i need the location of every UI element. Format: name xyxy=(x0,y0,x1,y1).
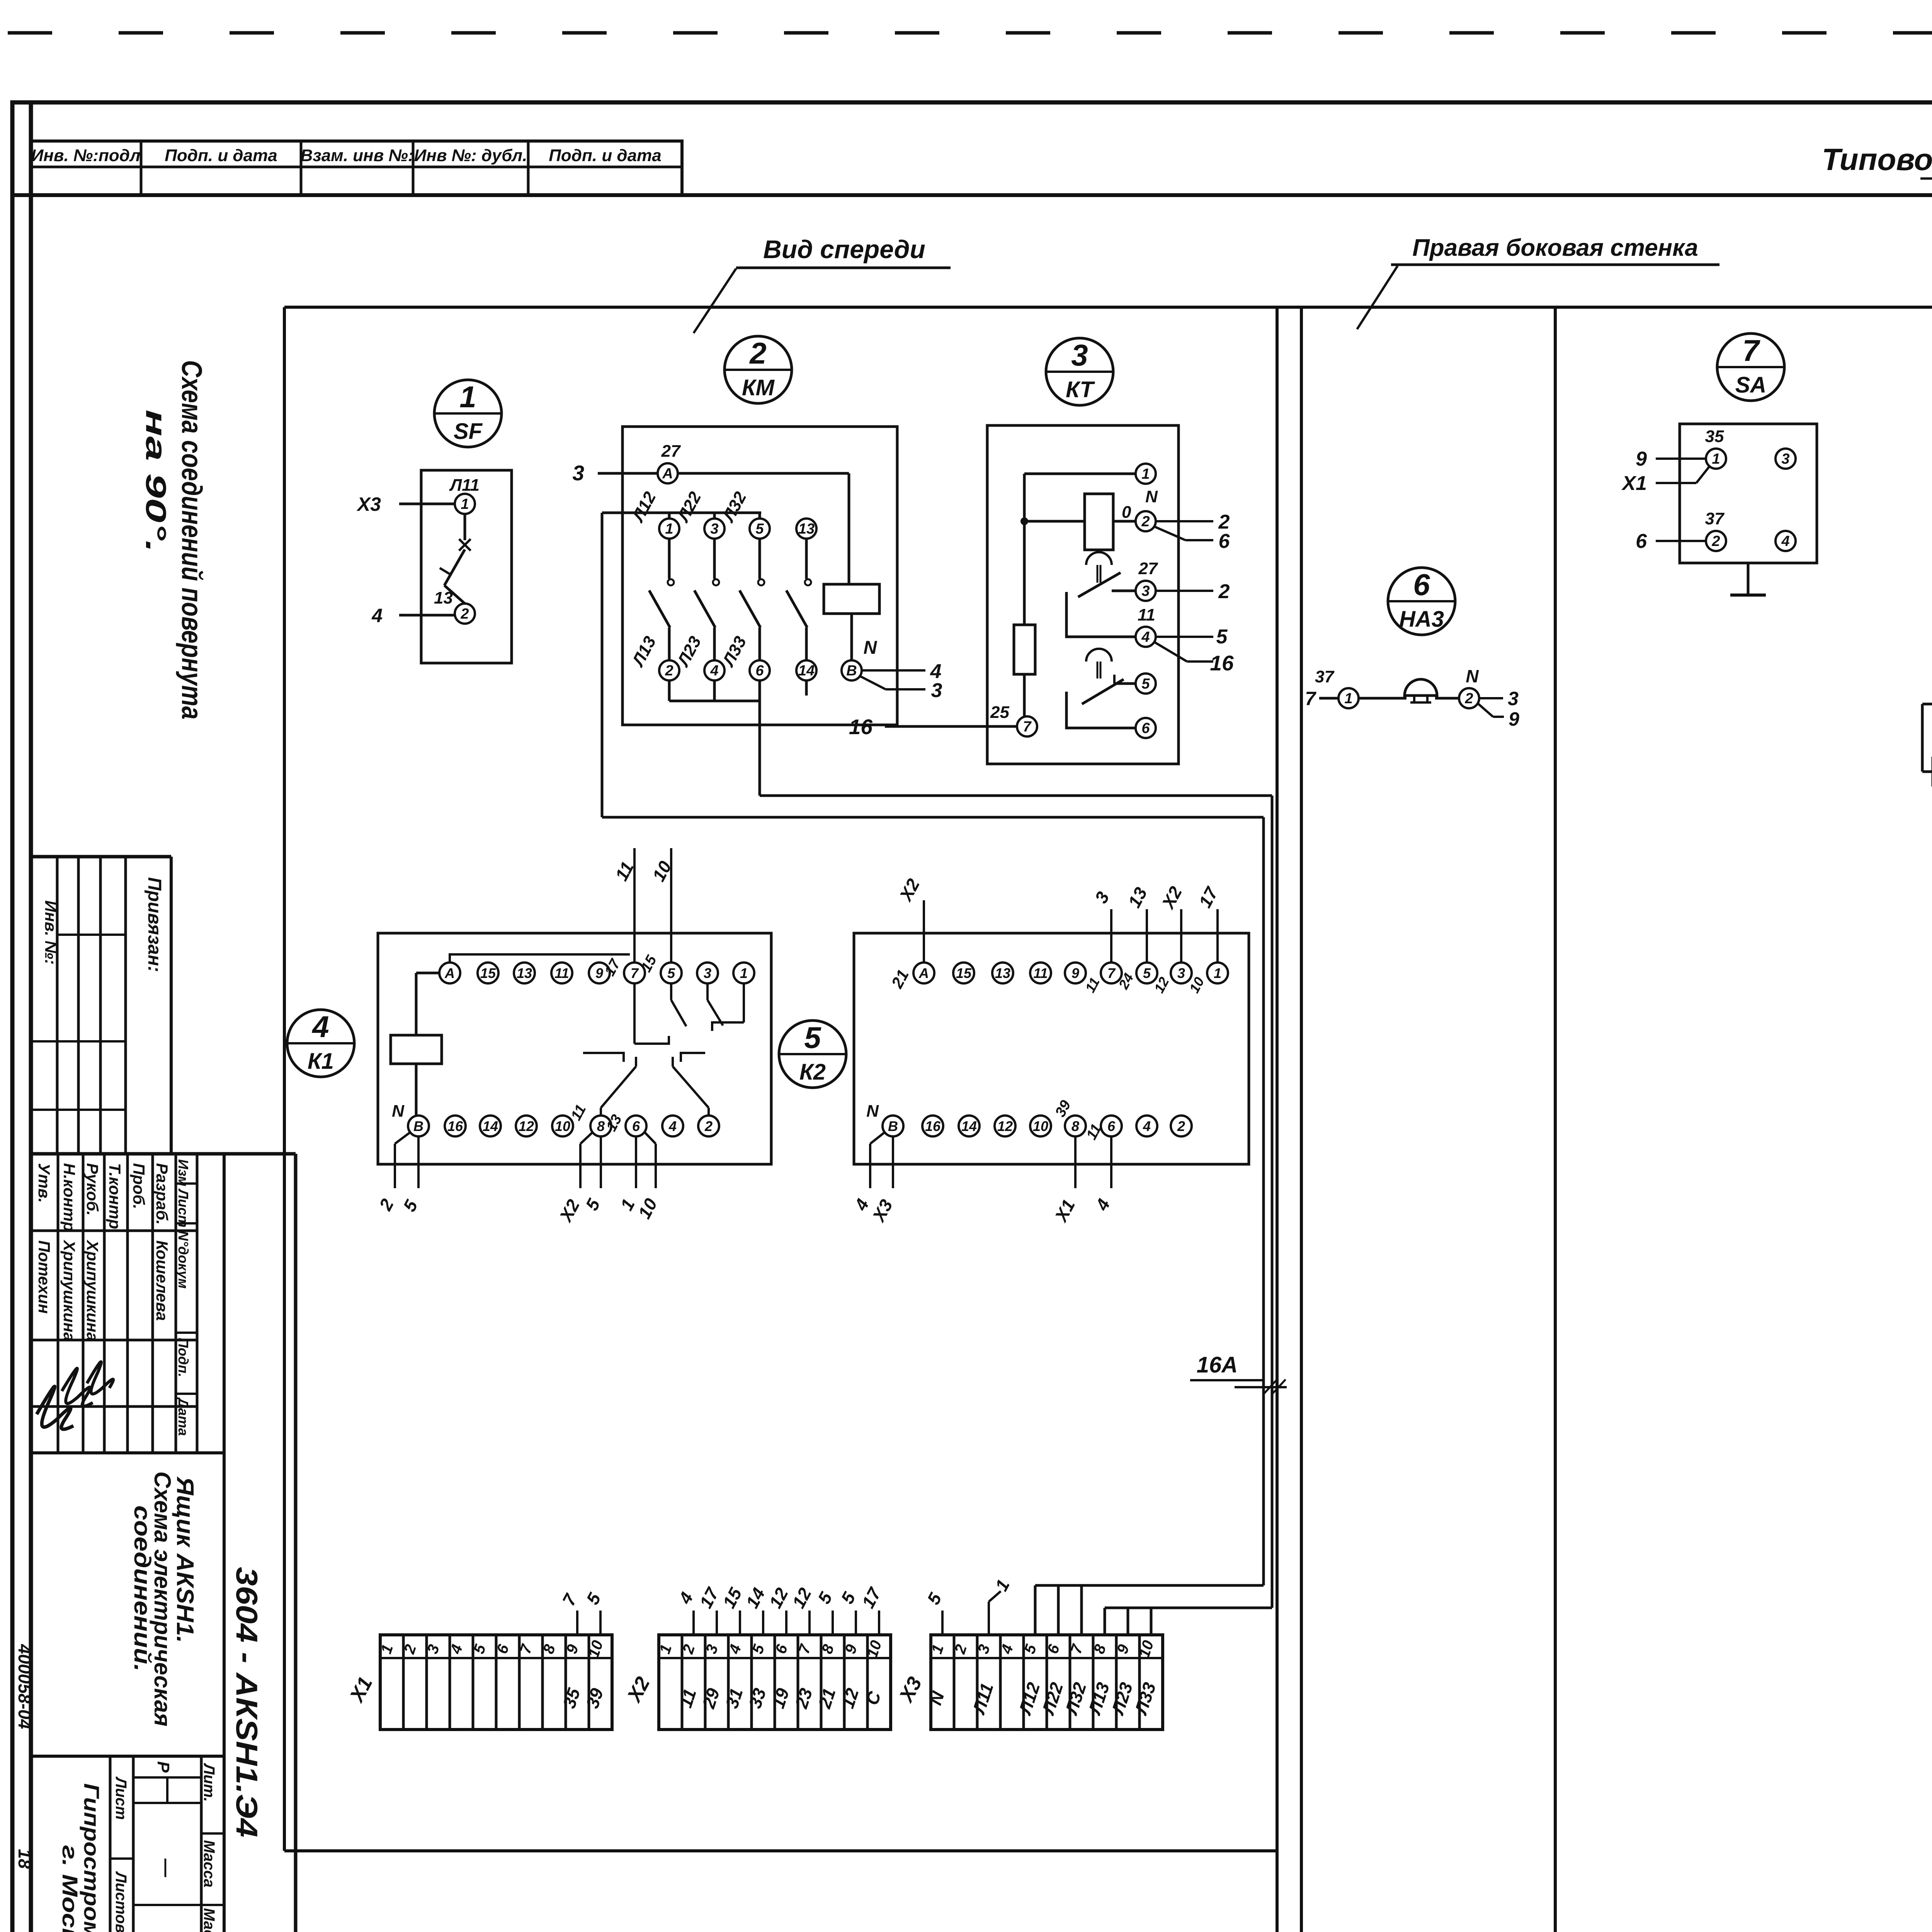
X2 leader 15 on cell 4 xyxy=(719,1584,746,1635)
svg-text:2: 2 xyxy=(749,336,766,370)
svg-text:6: 6 xyxy=(1413,568,1430,602)
K2 top pin row xyxy=(913,963,934,983)
svg-text:А: А xyxy=(444,965,455,981)
top dashed border line xyxy=(8,31,1932,35)
K1 contacts 4-2 xyxy=(673,1053,709,1116)
K1 wire 10 from pin 6 xyxy=(634,1132,661,1222)
HA3 terminal 2 xyxy=(1459,688,1479,708)
svg-text:Инв №: дубл.: Инв №: дубл. xyxy=(414,146,527,165)
switch SA box xyxy=(1680,424,1817,563)
KT timed contact 2 xyxy=(1066,649,1136,728)
svg-text:Взам. инв №:: Взам. инв №: xyxy=(300,146,413,165)
svg-text:Дата: Дата xyxy=(175,1397,191,1436)
breaker SF symbol xyxy=(440,514,471,604)
wire from KM feed bus down and right to X3 cells 5-7 xyxy=(602,513,1264,1635)
relay K2 box xyxy=(854,933,1249,1164)
svg-text:10: 10 xyxy=(1033,1118,1048,1134)
svg-text:Утв.: Утв. xyxy=(35,1163,53,1203)
svg-text:2: 2 xyxy=(1464,690,1473,707)
wire X1 to SA:1 xyxy=(1656,482,1696,484)
svg-text:N°докум: N°докум xyxy=(175,1231,191,1289)
K2 wire X1 from pin 8 xyxy=(1050,1136,1079,1226)
SA terminal 2 xyxy=(1706,531,1726,551)
wire 3 to KM:A xyxy=(598,472,658,475)
K1 wire X2 from pin 8 xyxy=(555,1132,593,1226)
svg-text:г. Москва: г. Москва xyxy=(58,1845,82,1932)
wire 2 from KT:2 xyxy=(1156,520,1213,522)
svg-text:2: 2 xyxy=(1218,580,1230,603)
K2 wire 4 from pin 6 xyxy=(1091,1136,1114,1214)
svg-text:N: N xyxy=(866,1102,879,1121)
svg-text:Проб.: Проб. xyxy=(130,1163,148,1209)
wire 5 from KT:4 xyxy=(1156,636,1213,638)
wire X3 to SF:1 xyxy=(399,503,455,505)
wire bell to HA3:2 xyxy=(1435,697,1459,700)
breaker SF box xyxy=(421,470,512,663)
svg-text:4: 4 xyxy=(1141,629,1150,645)
svg-text:Потехин: Потехин xyxy=(35,1240,53,1314)
svg-text:4: 4 xyxy=(710,663,718,679)
middle panel right divider xyxy=(1554,307,1557,1932)
svg-text:Подп. и дата: Подп. и дата xyxy=(549,146,661,165)
svg-text:16: 16 xyxy=(925,1118,941,1134)
KT terminal 4 xyxy=(1136,627,1156,647)
svg-text:6: 6 xyxy=(1141,720,1150,736)
time relay KT box xyxy=(987,425,1179,764)
svg-text:А: А xyxy=(918,965,929,981)
svg-text:4: 4 xyxy=(1781,533,1789,549)
ground at SA xyxy=(1730,563,1766,595)
svg-text:14: 14 xyxy=(798,663,815,679)
svg-text:Лист: Лист xyxy=(112,1776,129,1820)
svg-text:Масштаб: Масштаб xyxy=(201,1908,218,1932)
inner frame left vertical xyxy=(29,102,33,1932)
svg-text:6: 6 xyxy=(755,663,764,679)
svg-text:Вид спереди: Вид спереди xyxy=(763,235,925,264)
wire 2 from KT:3 xyxy=(1156,590,1213,592)
svg-text:X1: X1 xyxy=(1621,472,1647,495)
svg-text:2: 2 xyxy=(1711,533,1720,549)
svg-text:9: 9 xyxy=(1509,708,1519,730)
K2 wire X3 from B xyxy=(868,1136,896,1226)
svg-text:Инв. №:подл: Инв. №:подл xyxy=(31,146,141,165)
HA3 terminal 1 xyxy=(1338,688,1359,708)
KM feed bus for contacts 1,3,5 xyxy=(602,512,761,514)
component id circle 3/KT xyxy=(1046,338,1113,405)
wire 9 to SA:1 xyxy=(1656,457,1706,460)
wire 9 from HA3:2 xyxy=(1478,703,1493,717)
X2 leader 12 on cell 7 xyxy=(788,1584,815,1635)
section label: Vid speredi xyxy=(694,235,951,333)
wire 16 to KT:7 xyxy=(885,725,1017,728)
terminal strip X2 xyxy=(622,1635,891,1730)
wire KT:1 to junction xyxy=(1024,473,1136,475)
svg-text:Лит.: Лит. xyxy=(201,1763,218,1802)
svg-text:16: 16 xyxy=(849,715,873,739)
wire 3 from HA3:2 xyxy=(1479,697,1503,699)
svg-text:1: 1 xyxy=(1344,690,1352,707)
svg-text:7: 7 xyxy=(1742,333,1760,367)
wire 4 from KM:B xyxy=(862,669,925,672)
svg-text:В: В xyxy=(888,1118,898,1134)
svg-text:6: 6 xyxy=(1219,530,1230,553)
terminal strip X1 xyxy=(345,1635,612,1730)
svg-text:5: 5 xyxy=(1143,965,1151,981)
signature table xyxy=(31,1152,296,1156)
terminal strip X3 xyxy=(895,1635,1163,1730)
svg-text:1: 1 xyxy=(1141,466,1150,482)
SA terminal 3 xyxy=(1776,449,1796,469)
svg-text:2: 2 xyxy=(704,1118,713,1134)
svg-text:N: N xyxy=(392,1102,405,1121)
svg-text:Рукоб.: Рукоб. xyxy=(83,1163,102,1216)
svg-text:1: 1 xyxy=(665,521,673,537)
svg-text:10: 10 xyxy=(555,1118,570,1134)
svg-text:Хрипушкина: Хрипушкина xyxy=(60,1240,78,1341)
K1 wire 1 from pin 6 xyxy=(616,1136,639,1214)
svg-text:1: 1 xyxy=(1712,451,1720,467)
svg-text:N: N xyxy=(864,638,878,658)
K2 X2 leader to pin A xyxy=(923,900,925,963)
svg-text:НА3: НА3 xyxy=(1399,607,1444,632)
SF terminal 1 xyxy=(455,494,475,514)
X2 leader 5 on cell 9 xyxy=(837,1588,860,1635)
KT terminal 6 xyxy=(1136,718,1156,738)
KT terminal 2 xyxy=(1136,511,1156,531)
HL5 lamp to resistor loop xyxy=(1922,704,1932,772)
svg-text:37: 37 xyxy=(1315,667,1335,686)
svg-text:6: 6 xyxy=(1636,530,1647,553)
contactor KM box xyxy=(622,427,897,725)
svg-text:3: 3 xyxy=(1508,688,1519,709)
svg-text:2: 2 xyxy=(1177,1118,1185,1134)
wire 6 to SA:2 xyxy=(1656,540,1706,542)
X2 leader 17 on cell 10 xyxy=(858,1584,885,1635)
svg-text:Правая боковая стенка: Правая боковая стенка xyxy=(1412,235,1698,261)
K2 wire 4 from B xyxy=(850,1132,885,1214)
svg-text:35: 35 xyxy=(1705,427,1724,446)
svg-text:8: 8 xyxy=(1071,1118,1079,1134)
SA terminal 1 xyxy=(1706,449,1726,469)
K1 pin7 external wire 11 xyxy=(633,848,636,963)
wire junction to coil xyxy=(1024,520,1085,523)
svg-text:11: 11 xyxy=(1138,605,1155,624)
svg-text:Типовой проект ТП708-75.93: Типовой проект ТП708-75.93 xyxy=(1822,142,1932,177)
SA terminal 4 xyxy=(1776,531,1796,551)
X1 leader 5 on cell 10 xyxy=(582,1589,605,1635)
svg-text:В: В xyxy=(846,663,857,679)
svg-text:5: 5 xyxy=(1141,676,1150,692)
svg-text:1: 1 xyxy=(740,965,748,981)
K1 contacts 3-1 xyxy=(707,983,744,1031)
svg-text:2: 2 xyxy=(460,606,469,622)
svg-text:КМ: КМ xyxy=(742,375,775,400)
KT resistor xyxy=(1023,521,1026,625)
svg-text:27: 27 xyxy=(1138,559,1158,578)
signature scribbles xyxy=(37,1386,73,1429)
svg-text:7: 7 xyxy=(1023,719,1032,735)
svg-text:К1: К1 xyxy=(308,1049,334,1074)
svg-text:0: 0 xyxy=(1122,503,1131,522)
svg-text:3: 3 xyxy=(704,965,711,981)
left panel right edge / divider xyxy=(1276,307,1279,1932)
svg-text:Инв. №:: Инв. №: xyxy=(42,900,60,964)
wire 4 to SF:2 xyxy=(399,614,455,617)
svg-text:11: 11 xyxy=(1033,965,1048,981)
wire A to coil xyxy=(678,472,849,475)
svg-text:на 90°.: на 90°. xyxy=(140,410,172,553)
left panel bottom edge xyxy=(284,1849,1277,1852)
svg-text:Л11: Л11 xyxy=(449,476,480,495)
left panel (front view) left edge xyxy=(283,307,286,1851)
svg-text:4: 4 xyxy=(668,1118,677,1134)
svg-text:—: — xyxy=(156,1858,177,1878)
K1 pin5 external wire 10 xyxy=(670,848,672,963)
svg-text:14: 14 xyxy=(483,1118,498,1134)
component id circle 1/SF xyxy=(434,380,502,447)
KM coil xyxy=(824,584,879,614)
svg-text:Привязан:: Привязан: xyxy=(144,877,165,972)
svg-text:Н.контр: Н.контр xyxy=(60,1163,78,1231)
K1 wire 5 from pin 8 xyxy=(582,1136,604,1214)
svg-text:Лист: Лист xyxy=(175,1188,191,1228)
wire from KM contact bus (2-4-6) down and right to X3 cells 8-10 xyxy=(760,725,1272,1635)
junction node xyxy=(1020,517,1028,525)
svg-text:9: 9 xyxy=(595,965,603,981)
section label: Pravaya bokovaya stenka xyxy=(1357,235,1719,329)
svg-text:13: 13 xyxy=(517,965,532,981)
svg-text:16А: 16А xyxy=(1197,1352,1238,1378)
KT terminal 3 xyxy=(1136,581,1156,601)
svg-text:Кошелева: Кошелева xyxy=(153,1240,171,1321)
component id circle 4/K1 xyxy=(287,1010,354,1077)
16A feeder marker xyxy=(1190,1352,1287,1394)
relay K1 box xyxy=(378,933,771,1164)
svg-text:3: 3 xyxy=(572,461,584,485)
bell HA3 symbol xyxy=(1405,679,1437,702)
X3 leader 5 on cell 1 xyxy=(923,1589,946,1635)
svg-text:Схема соединений повернута: Схема соединений повернута xyxy=(176,360,208,719)
X2 leader 17 on cell 3 xyxy=(696,1584,723,1635)
svg-text:Масса: Масса xyxy=(201,1840,218,1888)
svg-text:Подп.: Подп. xyxy=(175,1338,191,1377)
K1 bottom pin row xyxy=(408,1116,429,1136)
svg-text:13: 13 xyxy=(798,521,815,537)
svg-text:N: N xyxy=(1145,487,1158,506)
svg-text:К2: К2 xyxy=(799,1060,826,1085)
svg-text:Изм: Изм xyxy=(175,1159,191,1186)
K2 bottom pin row xyxy=(883,1116,903,1136)
svg-text:1: 1 xyxy=(1214,965,1221,981)
svg-text:9: 9 xyxy=(1071,965,1079,981)
svg-text:2: 2 xyxy=(665,663,673,679)
svg-text:соединений.: соединений. xyxy=(129,1505,155,1672)
svg-text:13: 13 xyxy=(995,965,1010,981)
component id circle 5/K2 xyxy=(779,1020,846,1088)
svg-text:400058-04: 400058-04 xyxy=(15,1644,35,1729)
svg-text:X3: X3 xyxy=(356,493,381,515)
X2 leader 12 on cell 6 xyxy=(765,1584,792,1635)
KM terminal B (N) xyxy=(842,660,862,680)
svg-text:9: 9 xyxy=(1636,448,1647,470)
K1 jumper A to pin7 column xyxy=(450,954,630,963)
KM top contact terminals xyxy=(659,519,679,539)
wire 7 to HA3:1 xyxy=(1319,697,1338,700)
svg-text:1: 1 xyxy=(461,496,469,512)
svg-text:4: 4 xyxy=(311,1010,329,1044)
middle panel left divider xyxy=(1300,307,1303,1932)
KM bottom contact terminals xyxy=(659,660,679,680)
X2 leader 5 on cell 8 xyxy=(814,1588,837,1635)
svg-text:Гипростроммаш: Гипростроммаш xyxy=(80,1783,104,1932)
svg-text:13: 13 xyxy=(434,588,453,607)
svg-text:27: 27 xyxy=(661,442,681,461)
SF terminal 2 xyxy=(455,604,475,624)
svg-text:7: 7 xyxy=(1107,965,1116,981)
svg-text:3: 3 xyxy=(931,679,942,702)
svg-text:12: 12 xyxy=(997,1118,1013,1134)
K2 leaders 3,13,x2,17 above pins 7,5,3,1 xyxy=(1110,909,1112,963)
K1 wire 5 from B xyxy=(399,1136,422,1215)
KT terminal 1 xyxy=(1136,464,1156,484)
KM terminal A xyxy=(658,463,678,483)
svg-text:2: 2 xyxy=(1141,514,1150,530)
svg-text:3604 - АКSН1.Э4: 3604 - АКSН1.Э4 xyxy=(230,1567,264,1837)
K1 contacts 8-6 xyxy=(583,1053,636,1116)
svg-text:5: 5 xyxy=(667,965,675,981)
svg-text:N: N xyxy=(1466,666,1479,686)
KM bottom bus 2-4-6 xyxy=(668,680,671,701)
svg-text:Разраб.: Разраб. xyxy=(153,1163,171,1225)
svg-text:Подп. и дата: Подп. и дата xyxy=(165,146,277,165)
svg-text:15: 15 xyxy=(480,965,496,981)
wire 16 from KT:4 xyxy=(1155,642,1187,662)
svg-text:14: 14 xyxy=(961,1118,977,1134)
svg-text:Листов 1: Листов 1 xyxy=(112,1871,129,1932)
svg-text:6: 6 xyxy=(632,1118,640,1134)
svg-text:5: 5 xyxy=(1216,626,1228,648)
component id circle 7/SA xyxy=(1717,333,1784,401)
wire HA3:1 to bell xyxy=(1359,697,1406,700)
K1 coil and wire A-B xyxy=(391,973,442,1116)
svg-text:Хрипушкина: Хрипушкина xyxy=(83,1240,102,1341)
svg-text:3: 3 xyxy=(1781,451,1789,467)
svg-text:18: 18 xyxy=(15,1849,35,1869)
svg-text:3: 3 xyxy=(1071,338,1088,372)
svg-text:5: 5 xyxy=(755,521,764,537)
svg-text:КТ: КТ xyxy=(1066,377,1095,402)
svg-text:3: 3 xyxy=(1141,583,1150,599)
svg-text:А: А xyxy=(662,466,673,482)
svg-text:5: 5 xyxy=(804,1020,821,1054)
wire 6 from KT:2 xyxy=(1155,527,1185,540)
svg-text:25: 25 xyxy=(990,703,1009,722)
component id circle 6/HA3 xyxy=(1388,568,1455,635)
KT terminal 7 xyxy=(1017,716,1037,736)
svg-text:3: 3 xyxy=(710,521,718,537)
svg-text:15: 15 xyxy=(956,965,972,981)
svg-text:6: 6 xyxy=(1107,1118,1116,1134)
X2 leader 14 on cell 5 xyxy=(742,1585,769,1635)
wire coil to KT:2 xyxy=(1113,520,1136,523)
bottom cells of stamp xyxy=(31,1755,224,1758)
KT coil xyxy=(1085,494,1113,550)
panels top line xyxy=(284,306,1932,309)
svg-text:SA: SA xyxy=(1735,372,1767,398)
title block stamp xyxy=(31,857,296,1932)
svg-text:16: 16 xyxy=(1210,651,1234,675)
K1 contacts 7-5 xyxy=(634,983,686,1044)
wire coil to N terminal xyxy=(850,614,853,660)
X2 leader 4 on cell 2 xyxy=(674,1589,697,1635)
svg-text:Т.контр: Т.контр xyxy=(106,1163,124,1229)
inner frame top line under header band xyxy=(12,193,1932,197)
svg-text:4: 4 xyxy=(1143,1118,1151,1134)
KM main contacts xyxy=(649,539,674,660)
K1 wire 2 from B xyxy=(375,1132,410,1214)
component id circle 2/KM xyxy=(724,336,792,403)
KT timed contact 1 (delay symbol) xyxy=(1066,552,1136,637)
svg-text:Р: Р xyxy=(154,1761,173,1773)
svg-text:3: 3 xyxy=(1177,965,1185,981)
K1 top pin row xyxy=(439,963,460,983)
KT terminal 5 xyxy=(1136,673,1156,694)
svg-text:37: 37 xyxy=(1705,509,1725,528)
header table (Inv.N podl / Podp i data / ...) xyxy=(31,141,682,195)
wire 3 from KM:B xyxy=(860,676,886,689)
svg-text:В: В xyxy=(413,1118,423,1134)
svg-text:1: 1 xyxy=(459,380,476,414)
X3 leader 1 on cell 3 xyxy=(989,1576,1014,1635)
svg-text:11: 11 xyxy=(554,965,569,981)
svg-text:12: 12 xyxy=(519,1118,534,1134)
svg-text:7: 7 xyxy=(1305,688,1316,709)
X1 leader 7 on cell 9 xyxy=(558,1590,581,1635)
svg-text:4: 4 xyxy=(371,605,383,626)
svg-text:SF: SF xyxy=(454,419,483,444)
svg-text:16: 16 xyxy=(447,1118,463,1134)
